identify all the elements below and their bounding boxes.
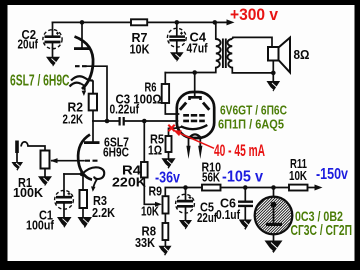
potentiometer wiper arrow R9: [155, 202, 162, 207]
cathode arrow U1b: [91, 186, 96, 191]
svg-text:6SL7 / 6H9C: 6SL7 / 6H9C: [10, 73, 70, 90]
wire upper grid to node: [87, 66, 108, 121]
output tube beam plate left: [180, 103, 186, 110]
svg-text:33K: 33K: [135, 235, 156, 250]
resistor R8: [163, 223, 169, 240]
gas tube V3: [214, 185, 355, 245]
transformer core: [223, 39, 226, 69]
potentiometer wiper arrow R1: [51, 160, 58, 162]
output tube cathode arc: [181, 125, 208, 129]
svg-text:47uf: 47uf: [187, 41, 209, 56]
svg-text:10K: 10K: [289, 168, 307, 183]
wire jack to R1: [28, 146, 45, 151]
wire cathode node C1 R3: [64, 173, 82, 175]
red X cathode test point: [168, 125, 174, 131]
transformer secondary winding: [227, 39, 232, 68]
capacitor C6: [238, 202, 253, 206]
output tube screen grid dashes: [183, 114, 205, 117]
ground below R8: [159, 246, 172, 256]
transformer secondary top corner: [232, 37, 234, 39]
wire C5 stems: [185, 188, 187, 220]
wire gas tube cathode stem: [273, 226, 275, 240]
wire lower triode plate stem: [92, 121, 94, 142]
wire C1 stems: [63, 174, 65, 217]
resistor R1: [41, 151, 50, 169]
svg-text:6П1П / 6AQ5: 6П1П / 6AQ5: [218, 117, 284, 132]
capacitor C1: [55, 190, 74, 209]
output tube bottom dimple: [190, 134, 201, 137]
svg-text:0.22uf: 0.22uf: [110, 102, 140, 117]
wire C4 stems: [176, 22, 178, 52]
wire R2 stems: [92, 110, 94, 121]
ground below speaker: [267, 81, 281, 92]
ground below C2: [46, 57, 60, 67]
wire R3 stems: [82, 174, 84, 217]
svg-text:56K: 56K: [202, 170, 220, 185]
ground below R5: [162, 158, 176, 169]
capacitor C5: [176, 194, 195, 213]
wire secondary bottom: [232, 68, 273, 73]
svg-text:R9: R9: [149, 184, 163, 199]
svg-text:220K: 220K: [112, 175, 147, 190]
wire transformer primary top: [215, 22, 217, 39]
wire C2 stems: [52, 22, 54, 56]
output tube V2 envelope: [177, 92, 214, 138]
wire rail to arrow: [308, 187, 317, 189]
wire B+ rail: [53, 21, 215, 23]
svg-text:10K: 10K: [141, 204, 159, 219]
svg-text:-105 v: -105 v: [222, 169, 263, 186]
wire R9 R8 stems: [164, 214, 166, 246]
wire R4 to wiper arrow: [144, 178, 156, 205]
wire bias rail: [165, 188, 289, 197]
wire output cathode to R5: [169, 127, 181, 136]
resistor R3: [80, 190, 88, 208]
resistor R4: [141, 162, 148, 178]
svg-text:0.1uf: 0.1uf: [216, 207, 241, 222]
wire gas tube anode stem: [273, 188, 275, 204]
svg-text:100K: 100K: [13, 185, 44, 200]
resistor R6: [162, 84, 169, 103]
resistor R2: [89, 94, 97, 111]
wire R5 ground stem: [168, 152, 170, 158]
ground below gas tube: [265, 241, 283, 254]
wire plate stem output tube: [194, 73, 196, 98]
svg-text:8Ω: 8Ω: [294, 48, 310, 62]
svg-text:20uf: 20uf: [18, 37, 39, 52]
output tube plate: [190, 97, 201, 100]
svg-text:-150v: -150v: [316, 166, 348, 183]
resistor R9: [163, 196, 169, 213]
ground below R3: [78, 217, 93, 228]
wire R6 stems: [165, 73, 178, 114]
wire speaker bottom stem: [272, 61, 274, 81]
wire grid lower from R1 wiper: [52, 160, 84, 162]
wire jack ground stem: [16, 153, 18, 162]
resistor R10: [202, 185, 221, 191]
svg-text:100uf: 100uf: [26, 218, 55, 233]
triode U1a upper 6SL7 half: [70, 37, 94, 94]
capacitor C2: [43, 30, 62, 49]
triode U1b lower 6SL7 half: [78, 135, 104, 189]
output tube beam plate right: [203, 103, 209, 110]
svg-text:2.2K: 2.2K: [63, 112, 84, 127]
speaker box: [268, 47, 279, 61]
arrow -150v: [315, 185, 323, 191]
ground below C4: [170, 52, 184, 62]
ground below C5: [179, 220, 192, 230]
ground below C1: [57, 217, 72, 228]
capacitor C3: [120, 117, 124, 126]
ground below C6: [239, 220, 252, 231]
svg-text:СГ3С / СГ2П: СГ3С / СГ2П: [291, 222, 353, 239]
wire primary bottom to plate node: [195, 68, 216, 73]
svg-text:2.2K: 2.2K: [92, 205, 116, 220]
svg-text:+300 v: +300 v: [230, 6, 279, 24]
ground below jack: [12, 162, 24, 171]
heater pin 1: [188, 137, 190, 147]
input jack: [15, 141, 28, 154]
wire secondary top to speaker: [233, 37, 272, 47]
capacitor C4: [167, 28, 186, 47]
wire C6 stems: [244, 188, 246, 220]
junction node dots: [80, 20, 85, 25]
wire C3 to output grid: [125, 120, 178, 122]
wire screen R6 to plate node: [165, 72, 194, 74]
wire upper triode plate stem: [81, 22, 83, 47]
arrow +300v: [215, 21, 228, 23]
resistor R11: [289, 185, 308, 191]
resistor R7: [131, 19, 147, 25]
svg-text:40 - 45 mA: 40 - 45 mA: [214, 142, 265, 160]
ground below R1: [38, 176, 52, 186]
svg-text:10K: 10K: [130, 42, 151, 57]
wire node to C3: [93, 120, 119, 122]
wire R4 top stem: [143, 121, 145, 162]
svg-text:6V6GT / 6П6С: 6V6GT / 6П6С: [220, 103, 287, 118]
heater pin 2: [199, 137, 201, 147]
wire R1 bottom stem: [44, 169, 46, 177]
resistor R5: [166, 136, 172, 152]
svg-text:1Ω: 1Ω: [148, 143, 162, 158]
output tube control grid dashes: [183, 120, 205, 123]
svg-text:22uf: 22uf: [197, 210, 217, 225]
transformer T1 primary winding: [216, 39, 221, 68]
red measurement arrow: [178, 132, 215, 148]
speaker cone: [279, 38, 291, 73]
cathode arrow U1a: [82, 91, 87, 96]
svg-text:6H9C: 6H9C: [103, 145, 129, 160]
